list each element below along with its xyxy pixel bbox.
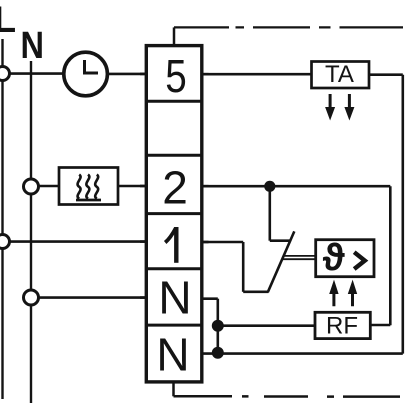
svg-text:RF: RF [326, 313, 358, 340]
svg-text:TA: TA [325, 61, 354, 88]
svg-text:ϑ: ϑ [322, 237, 345, 279]
svg-text:N: N [156, 329, 189, 381]
svg-text:N: N [21, 25, 45, 67]
svg-text:L: L [0, 0, 16, 40]
svg-text:5: 5 [165, 50, 187, 102]
svg-text:2: 2 [162, 162, 188, 214]
svg-text:N: N [158, 272, 191, 324]
